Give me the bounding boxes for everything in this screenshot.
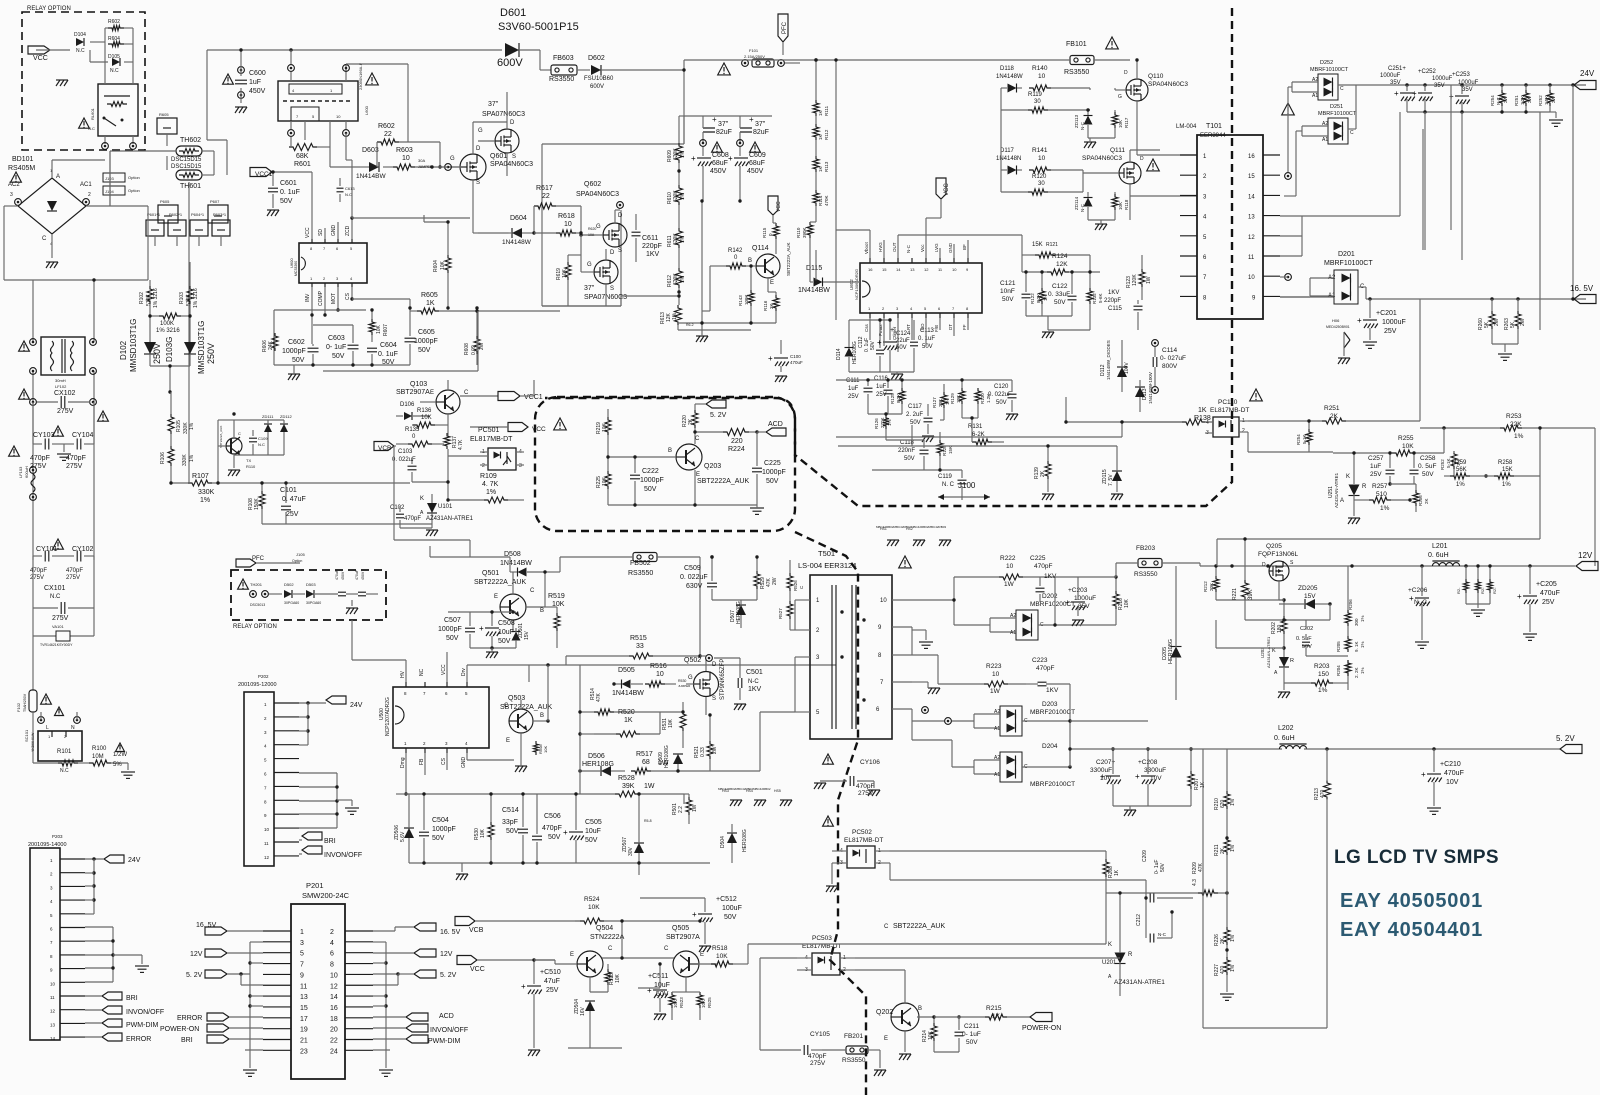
- svg-text:3: 3: [10, 192, 13, 198]
- svg-text:2K: 2K: [1424, 498, 1429, 504]
- resistor R135: [396, 427, 444, 447]
- resistor R104: [156, 313, 181, 334]
- capacitor C201: [1357, 299, 1406, 348]
- svg-text:275V: 275V: [66, 575, 80, 581]
- svg-text:100V: 100V: [1124, 362, 1130, 374]
- svg-text:R517: R517: [636, 751, 653, 758]
- svg-text:R608: R608: [464, 343, 470, 355]
- svg-text:R2-: R2-: [1492, 587, 1497, 594]
- wire u602 top: [836, 218, 1022, 322]
- capacitor C600: [235, 50, 266, 103]
- svg-text:35V: 35V: [1462, 87, 1473, 93]
- svg-text:620K: 620K: [673, 233, 679, 245]
- svg-text:390K: 390K: [802, 227, 807, 238]
- resistor R110b: [796, 222, 816, 250]
- capacitor CY102: [64, 546, 94, 581]
- svg-text:D505: D505: [618, 667, 635, 674]
- svg-text:3: 3: [300, 940, 304, 947]
- svg-text:1/2W: 1/2W: [113, 752, 127, 758]
- svg-text:30PGA60: 30PGA60: [284, 601, 299, 605]
- ground: [235, 107, 247, 113]
- svg-text:2K: 2K: [1040, 470, 1046, 477]
- box P607: [208, 199, 228, 223]
- svg-text:E: E: [700, 952, 704, 958]
- svg-text:100uF: 100uF: [722, 905, 742, 912]
- svg-text:82uF: 82uF: [753, 129, 769, 136]
- svg-text:250V: 250V: [152, 343, 162, 364]
- svg-text:1%: 1%: [1380, 505, 1390, 512]
- capacitor C602: [282, 339, 319, 365]
- svg-text:P605: P605: [160, 199, 170, 204]
- svg-text:1% 3216: 1% 3216: [193, 288, 199, 308]
- svg-text:Q111: Q111: [1110, 147, 1125, 154]
- transistor Q103: [396, 380, 469, 414]
- flag PWM-DIM p203: [85, 1019, 158, 1029]
- svg-text:SBT2222A_AUK: SBT2222A_AUK: [786, 242, 791, 276]
- optocoupler PC503: [797, 935, 855, 975]
- capacitor CY106: [814, 759, 880, 797]
- svg-text:1N4148W: 1N4148W: [502, 239, 532, 246]
- diode D205: [1162, 566, 1182, 680]
- warning triangle: [11, 172, 22, 182]
- svg-text:150: 150: [1318, 671, 1329, 678]
- svg-text:L: L: [46, 725, 49, 731]
- svg-text:1KV: 1KV: [748, 686, 762, 693]
- resistor R611: [667, 228, 686, 268]
- transistor Q503: [500, 695, 552, 772]
- diode D105: [108, 54, 120, 74]
- svg-text:1W: 1W: [990, 688, 1001, 695]
- svg-text:MED4250B901: MED4250B901: [1326, 325, 1350, 329]
- svg-text:16: 16: [1248, 154, 1255, 160]
- svg-text:16: 16: [330, 1005, 338, 1012]
- resistor R608: [464, 306, 485, 365]
- svg-text:TH201: TH201: [250, 582, 263, 587]
- svg-text:37": 37": [488, 101, 499, 108]
- svg-text:P601*1: P601*1: [147, 212, 161, 217]
- svg-text:K: K: [1272, 648, 1276, 654]
- svg-text:OUT: OUT: [892, 242, 897, 252]
- wire u602 bottom pins: [870, 318, 968, 352]
- svg-text:82uF: 82uF: [716, 129, 732, 136]
- capacitor C225a: [752, 432, 786, 505]
- svg-text:1000uF: 1000uF: [1432, 76, 1453, 82]
- wire fuse block: [110, 134, 221, 246]
- svg-text:275V: 275V: [30, 575, 44, 581]
- VCC flag: [28, 46, 50, 62]
- resistor R128: [937, 432, 953, 470]
- svg-text:1%: 1%: [200, 497, 210, 504]
- svg-text:PFC: PFC: [782, 21, 788, 34]
- svg-text:470pF: 470pF: [856, 783, 874, 790]
- svg-text:Q501: Q501: [482, 570, 499, 577]
- svg-text:1%: 1%: [1230, 964, 1236, 972]
- fuse FB502: [560, 553, 700, 578]
- svg-text:+: +: [692, 910, 697, 919]
- resistor R226: [1214, 886, 1236, 958]
- svg-text:1%: 1%: [1318, 687, 1328, 694]
- svg-text:0.09: 0.09: [471, 345, 477, 355]
- svg-text:470pF: 470pF: [66, 455, 86, 462]
- svg-text:630V: 630V: [686, 583, 703, 590]
- wire q501 base: [448, 610, 516, 658]
- svg-text:N.C: N.C: [50, 594, 61, 600]
- svg-text:+: +: [691, 154, 696, 163]
- resistor R520: [594, 709, 660, 737]
- svg-text:0.33: 0.33: [700, 747, 706, 757]
- svg-text:470: 470: [1220, 965, 1226, 974]
- svg-text:RELAY OPTION: RELAY OPTION: [233, 624, 277, 630]
- svg-text:BRI: BRI: [181, 1037, 193, 1044]
- svg-text:C103: C103: [398, 449, 413, 455]
- svg-text:50V: 50V: [724, 914, 737, 921]
- svg-text:R259: R259: [1452, 460, 1467, 466]
- svg-text:R603: R603: [396, 147, 413, 154]
- flag VCC b: [457, 956, 555, 974]
- svg-text:11: 11: [50, 995, 55, 1000]
- resistor R132: [1087, 270, 1103, 330]
- warning triangle: [823, 754, 834, 826]
- diode D252: [1288, 60, 1356, 172]
- svg-text:275V: 275V: [810, 1060, 826, 1067]
- capacitor C212: [1136, 896, 1174, 942]
- flag VCC1: [250, 168, 312, 240]
- transistor Q202: [876, 923, 945, 1060]
- ground: [346, 600, 358, 614]
- svg-text:13: 13: [910, 267, 915, 272]
- svg-text:R119: R119: [1028, 92, 1043, 98]
- svg-text:17: 17: [300, 1016, 308, 1023]
- svg-text:1%: 1%: [486, 489, 496, 496]
- resistor R100: [78, 743, 135, 778]
- svg-text:R601: R601: [294, 161, 311, 168]
- capacitor C100: [768, 340, 803, 382]
- svg-text:470uF: 470uF: [1444, 770, 1464, 777]
- svg-text:25V: 25V: [286, 511, 299, 518]
- svg-text:Vboot: Vboot: [864, 241, 869, 254]
- svg-text:39K: 39K: [622, 783, 635, 790]
- svg-text:F102: F102: [16, 702, 21, 712]
- svg-text:D: D: [1262, 562, 1266, 568]
- svg-text:470pF: 470pF: [1034, 563, 1052, 570]
- resistor R527: [778, 560, 793, 630]
- capacitor C117: [906, 404, 934, 442]
- svg-text:P201: P201: [306, 881, 324, 890]
- svg-text:10K: 10K: [376, 324, 382, 334]
- svg-text:AZ431AN-ATRE1: AZ431AN-ATRE1: [426, 516, 474, 522]
- svg-text:22: 22: [384, 131, 392, 138]
- capacitor C206: [1408, 566, 1430, 648]
- svg-text:50V: 50V: [922, 344, 933, 350]
- svg-text:15V: 15V: [524, 630, 530, 640]
- svg-text:19: 19: [300, 1027, 308, 1034]
- svg-text:+C512: +C512: [716, 896, 737, 903]
- flag VCC up: [768, 196, 782, 223]
- svg-text:INV: INV: [305, 293, 311, 302]
- svg-text:SC101: SC101: [24, 729, 29, 742]
- svg-text:C117: C117: [908, 404, 923, 410]
- svg-text:470uF: 470uF: [790, 360, 803, 365]
- svg-text:68K: 68K: [296, 153, 309, 160]
- svg-text:R130: R130: [980, 393, 985, 404]
- resistor R221: [1232, 546, 1254, 620]
- svg-text:S: S: [476, 180, 480, 186]
- resistor R118: [1088, 192, 1129, 230]
- title EAY 40505001: [1340, 890, 1483, 912]
- capacitor C223: [1026, 657, 1070, 694]
- capacitor C603: [326, 325, 359, 365]
- svg-text:4. 7K: 4. 7K: [482, 481, 499, 488]
- svg-text:VCC: VCC: [441, 664, 447, 675]
- svg-text:PC110: PC110: [1218, 399, 1238, 406]
- svg-text:Q502: Q502: [684, 657, 701, 664]
- wire left rails: [4, 182, 189, 560]
- resistor R528: [580, 775, 684, 797]
- capacitor C116: [874, 376, 893, 414]
- terminal AC1: [80, 182, 92, 205]
- resistor R517: [631, 751, 710, 774]
- svg-text:EL817MB-DT: EL817MB-DT: [470, 436, 513, 443]
- flag 16.5V left: [196, 922, 263, 935]
- resistor R519b: [545, 593, 565, 648]
- ground row HS1: [876, 525, 951, 546]
- svg-text:16. 5V: 16. 5V: [196, 922, 217, 929]
- wire p203 bus: [85, 859, 149, 982]
- svg-text:D115: D115: [806, 265, 822, 272]
- svg-text:C225: C225: [764, 460, 781, 467]
- flag INVON/OFF p203: [85, 1006, 164, 1016]
- svg-text:11: 11: [300, 983, 307, 990]
- svg-text:50V: 50V: [1302, 644, 1312, 650]
- diode D508: [500, 551, 545, 577]
- svg-text:0- 027uF: 0- 027uF: [1160, 355, 1186, 362]
- svg-text:+: +: [877, 338, 882, 347]
- svg-text:R205: R205: [1336, 641, 1341, 652]
- svg-text:Option: Option: [292, 559, 302, 563]
- wire t101 right taps: [1280, 173, 1334, 297]
- svg-text:R255: R255: [1398, 435, 1414, 442]
- inductor L202: [1274, 725, 1560, 751]
- svg-text:R115: R115: [762, 227, 767, 238]
- resistor R129: [950, 380, 965, 418]
- svg-text:25V: 25V: [1384, 328, 1397, 335]
- wire p201 left bus: [241, 942, 263, 1076]
- svg-text:+: +: [1065, 598, 1070, 607]
- resistor R130: [975, 388, 991, 418]
- svg-text:R109: R109: [480, 473, 497, 480]
- svg-text:BD101: BD101: [12, 156, 34, 163]
- svg-text:C212: C212: [1136, 914, 1142, 926]
- wire pc503 net: [855, 958, 1120, 970]
- svg-text:C: C: [884, 924, 889, 930]
- svg-text:Q202: Q202: [876, 1009, 893, 1016]
- diode D112: [1100, 340, 1130, 392]
- svg-text:10K: 10K: [562, 268, 568, 278]
- flag 5.2V: [1556, 734, 1582, 754]
- svg-text:R224: R224: [728, 446, 745, 453]
- svg-text:R113: R113: [824, 161, 829, 172]
- svg-text:220pF: 220pF: [1104, 298, 1121, 304]
- svg-text:C600: C600: [249, 70, 266, 77]
- wire q203 gnd: [608, 503, 764, 514]
- svg-text:D252: D252: [1320, 60, 1333, 66]
- svg-text:600V: 600V: [497, 57, 523, 69]
- svg-text:5. 2V: 5. 2V: [1556, 734, 1575, 743]
- svg-text:1%: 1%: [189, 454, 195, 462]
- resistor R213: [1314, 749, 1331, 960]
- flag 24V: [1574, 69, 1596, 90]
- svg-text:450V: 450V: [249, 88, 266, 95]
- svg-text:C119: C119: [938, 474, 953, 480]
- resistor R518: [686, 945, 748, 992]
- svg-text:10K: 10K: [440, 260, 446, 270]
- wire r138 link: [836, 397, 1182, 437]
- capacitor C257: [1368, 451, 1395, 485]
- svg-text:1% 3216: 1% 3216: [156, 328, 180, 334]
- svg-text:D201: D201: [1338, 251, 1355, 258]
- flag VCC mid: [470, 423, 546, 434]
- svg-text:0- 1uF: 0- 1uF: [326, 344, 346, 351]
- connector P203: [28, 834, 85, 1041]
- svg-text:R114: R114: [818, 195, 823, 206]
- resistor R203: [1284, 660, 1348, 694]
- flag ERROR p203: [85, 1033, 151, 1043]
- svg-text:25V: 25V: [1370, 471, 1382, 478]
- svg-text:1K: 1K: [1198, 407, 1207, 414]
- capacitor C203: [1055, 577, 1096, 626]
- svg-text:VCB: VCB: [378, 445, 391, 452]
- svg-text:C501: C501: [746, 669, 763, 676]
- wire u602 lower cluster: [836, 378, 1012, 500]
- fuse FB101: [684, 41, 1130, 76]
- svg-text:INVON/OFF: INVON/OFF: [430, 1027, 468, 1034]
- svg-text:R110: R110: [246, 464, 256, 469]
- svg-text:C: C: [1350, 130, 1354, 136]
- svg-text:VCC1: VCC1: [524, 394, 543, 401]
- resistor R2x2: [1476, 564, 1486, 604]
- svg-text:R258: R258: [1498, 460, 1513, 466]
- fuse FB201: [822, 1033, 886, 1076]
- diode ZD114: [1074, 192, 1093, 220]
- svg-text:R141: R141: [1032, 147, 1048, 154]
- fuse F101: [742, 48, 800, 67]
- svg-text:1%: 1%: [1502, 482, 1511, 488]
- wire pc502 net: [890, 851, 1146, 880]
- svg-text:R206: R206: [1348, 599, 1353, 610]
- svg-text:1K: 1K: [1114, 869, 1120, 876]
- resistor R224: [693, 429, 758, 454]
- svg-text:C111: C111: [846, 378, 860, 384]
- ground: [1084, 138, 1096, 148]
- svg-text:LS-004 EER3124: LS-004 EER3124: [798, 561, 856, 570]
- diode D603: [356, 147, 386, 180]
- svg-text:16. 5V: 16. 5V: [440, 929, 461, 936]
- svg-text:2.2: 2.2: [678, 806, 684, 813]
- svg-text:1%: 1%: [672, 312, 678, 320]
- svg-text:2: 2: [1242, 428, 1245, 434]
- svg-text:D: D: [1124, 70, 1128, 76]
- svg-text:C: C: [464, 390, 469, 396]
- capacitor C509: [680, 555, 717, 600]
- capacitor C225b: [1030, 555, 1057, 602]
- svg-text:AC1: AC1: [80, 182, 92, 188]
- svg-text:+: +: [1135, 772, 1140, 781]
- svg-text:R256: R256: [1418, 495, 1423, 506]
- svg-text:2.15A/250V: 2.15A/250V: [744, 54, 765, 59]
- warning triangle: [79, 118, 90, 128]
- diode D113: [1135, 372, 1153, 412]
- flag BRI p202: [299, 832, 336, 845]
- resistor R263: [1504, 299, 1526, 344]
- diode ZD505: [394, 794, 414, 863]
- resistor R251: [1248, 405, 1420, 424]
- ground: [57, 444, 71, 460]
- svg-text:U101: U101: [438, 504, 453, 510]
- op-amp U601 MC33260: [289, 225, 367, 307]
- resistor R125: [890, 380, 905, 414]
- svg-text:Css: Css: [864, 324, 869, 332]
- svg-text:1K: 1K: [818, 110, 823, 116]
- resistor R508: [534, 741, 549, 755]
- svg-text:F/B: F/B: [934, 325, 939, 332]
- svg-text:20: 20: [330, 1027, 338, 1034]
- svg-text:INVON/OFF: INVON/OFF: [324, 852, 362, 859]
- svg-text:50V: 50V: [506, 828, 519, 835]
- svg-text:11: 11: [1248, 255, 1255, 261]
- resistor R136: [412, 408, 448, 432]
- svg-text:4.7K: 4.7K: [458, 439, 464, 450]
- svg-text:RELAY OPTION: RELAY OPTION: [27, 6, 71, 12]
- resistor R139: [1034, 446, 1054, 500]
- svg-text:D203: D203: [1042, 701, 1058, 708]
- capacitor C109: [249, 430, 268, 455]
- svg-text:RS3550: RS3550: [628, 570, 653, 577]
- svg-text:FB201: FB201: [844, 1033, 864, 1040]
- svg-text:N.C: N.C: [110, 68, 119, 74]
- svg-text:G: G: [478, 128, 483, 134]
- svg-text:BRI: BRI: [126, 995, 138, 1002]
- flag 12V: [1576, 551, 1598, 571]
- svg-text:C251+: C251+: [1388, 66, 1406, 72]
- svg-text:150K: 150K: [254, 498, 260, 510]
- svg-text:10K: 10K: [1124, 598, 1130, 608]
- svg-text:R2-: R2-: [1480, 587, 1485, 594]
- resistor R227: [1214, 957, 1236, 1000]
- resistor R115: [762, 223, 779, 239]
- svg-text:10: 10: [1038, 73, 1046, 80]
- wire sense column top: [814, 58, 817, 90]
- svg-text:HER108G: HER108G: [1168, 639, 1174, 664]
- svg-text:SMW200-24C: SMW200-24C: [302, 891, 350, 900]
- resistor R515: [566, 635, 700, 665]
- resistor R205: [1336, 636, 1365, 652]
- resistor R143: [738, 264, 754, 323]
- wire q111 gnd stub: [1129, 196, 1131, 220]
- svg-text:DSC5013: DSC5013: [250, 603, 265, 607]
- svg-text:C611: C611: [642, 235, 658, 242]
- svg-text:50V: 50V: [332, 353, 345, 360]
- wire discharge: [148, 262, 191, 394]
- flag 5.2V right: [373, 970, 457, 979]
- svg-text:R203: R203: [1314, 663, 1330, 670]
- capacitor C614 82uF: [737, 115, 769, 146]
- svg-text:D117: D117: [1000, 148, 1015, 154]
- svg-text:10uF: 10uF: [498, 629, 514, 636]
- svg-text:HS5: HS5: [774, 789, 781, 793]
- resistor R127: [932, 384, 950, 420]
- svg-text:D114: D114: [836, 348, 842, 360]
- svg-text:VCC: VCC: [776, 201, 782, 212]
